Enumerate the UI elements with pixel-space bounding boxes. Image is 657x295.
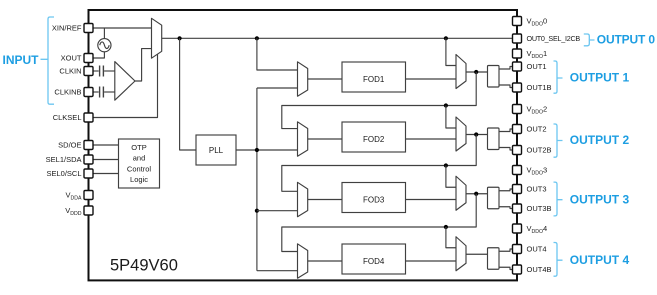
svg-text:5P49V60: 5P49V60 [110, 257, 178, 275]
capacitor C1 plates [100, 66, 104, 77]
OUTPUT 1 bracket [554, 61, 563, 93]
pin XIN/REF [84, 24, 93, 33]
wire reference drop to PLL input [180, 38, 196, 150]
junction node wrap line 3 at OUT3 mux drop [444, 163, 448, 167]
wire reference drop to FOD1 mux top input [257, 38, 298, 70]
pin OUT4 [513, 245, 522, 254]
pin VDDO4 [513, 224, 522, 233]
svg-text:OUTPUT 1: OUTPUT 1 [570, 71, 630, 85]
wire FOD2 output to OUT2 mux lower input [406, 138, 457, 140]
junction node wrap line 2 at OUT2 mux drop [444, 103, 448, 107]
OUT4 output mux [456, 237, 466, 271]
svg-text:OUTPUT 2: OUTPUT 2 [570, 133, 630, 147]
wire OUT2 mux output to driver [466, 134, 488, 136]
wire FOD4 mux output to FOD4 block [308, 260, 342, 262]
wire FOD1 mux output to FOD1 block [308, 78, 342, 80]
junction node PLL bus to FOD3 [255, 209, 259, 213]
svg-text:SEL0/SCL: SEL0/SCL [46, 169, 81, 178]
pin OUT0_SEL_I2CB [513, 34, 522, 43]
wire capacitor C2 to amp U2 [104, 91, 115, 93]
junction node on reference net at OUT1 mux drop [444, 36, 448, 40]
wire driver to OUT1 pin [499, 67, 513, 70]
svg-text:OUT1B: OUT1B [527, 83, 552, 92]
svg-text:OUT4: OUT4 [527, 245, 547, 254]
wire amp U2 output to input mux [135, 49, 152, 81]
svg-text:XOUT: XOUT [61, 54, 82, 63]
pin OUT1 [513, 62, 522, 71]
pin XOUT [84, 54, 93, 63]
svg-text:FOD3: FOD3 [363, 195, 385, 204]
wire cascade net from OUT3 mux output down to wrap line 4 [282, 194, 476, 252]
junction node OUT2 mux output [474, 132, 478, 136]
OUTPUT 3 bracket [554, 182, 563, 216]
svg-text:CLKINB: CLKINB [54, 88, 81, 97]
svg-text:OUTPUT 0: OUTPUT 0 [597, 32, 656, 46]
pin OUT1B [513, 83, 522, 92]
svg-text:CLKIN: CLKIN [59, 67, 81, 76]
wire PLL bus to FOD4 mux lower input [257, 270, 298, 272]
pin SEL0/SCL [84, 169, 93, 178]
svg-text:SEL1/SDA: SEL1/SDA [46, 155, 82, 164]
wire FOD2 mux output to FOD2 block [308, 138, 342, 140]
FOD2 input mux [298, 122, 308, 156]
pin SEL1/SDA [84, 155, 93, 164]
wire drop to OUT3 mux top input [446, 166, 456, 188]
svg-text:FOD1: FOD1 [363, 75, 385, 84]
capacitor C2 plates [100, 87, 104, 98]
wire drop to OUT4 mux top input [446, 227, 456, 248]
wire FOD1 output to OUT1 mux lower input [406, 78, 457, 80]
pin OUT2B [513, 146, 522, 155]
pin VDDO1 [513, 49, 522, 58]
wire reference net: input mux output to OUT0_SEL_I2CB pin [162, 37, 513, 39]
OUT1 output mux [456, 55, 466, 89]
junction node on reference net at FOD1 drop [255, 36, 259, 40]
svg-text:INPUT: INPUT [3, 53, 40, 67]
wire PLL bus to FOD3 mux lower input [257, 210, 298, 212]
wire PLL output to FOD2 mux lower input [236, 149, 298, 151]
svg-text:FOD2: FOD2 [363, 135, 385, 144]
svg-text:OUTPUT 4: OUTPUT 4 [570, 253, 630, 267]
wire SEL0/SCL pin to OTP block [93, 173, 119, 175]
wire FOD4 output to OUT4 mux lower input [406, 260, 457, 262]
wire CLKINB pin to capacitor C2 [93, 91, 99, 93]
svg-text:OUT1: OUT1 [527, 62, 547, 71]
wire driver to OUT2B pin [499, 148, 513, 151]
pin VDDA [84, 191, 93, 200]
OUT1 output driver [488, 66, 500, 88]
wire OUT4 mux output to driver [466, 253, 488, 255]
pin OUT2 [513, 125, 522, 134]
wire SD/OE pin to OTP block [93, 144, 119, 146]
wire driver to OUT1B pin [499, 85, 513, 88]
wire driver to OUT4B pin [499, 267, 513, 269]
OUT4 output driver [488, 248, 500, 270]
wire crystal top stub [103, 28, 105, 39]
wire OUT1 mux output to driver [466, 71, 488, 73]
junction node OUT3 mux output [474, 192, 478, 196]
pin VDDO2 [513, 105, 522, 114]
svg-text:OUT2: OUT2 [527, 125, 547, 134]
pin SD/OE [84, 141, 93, 150]
svg-text:SD/OE: SD/OE [58, 141, 81, 150]
FOD1 input mux [298, 62, 308, 96]
svg-text:OUT0_SEL_I2CB: OUT0_SEL_I2CB [527, 34, 581, 43]
FOD2 block [342, 122, 406, 152]
OUTPUT 0 bracket [584, 34, 595, 46]
wire PLL output vertical distribution bus [256, 88, 258, 271]
svg-text:XIN/REF: XIN/REF [52, 24, 82, 33]
wire OUT3 mux output to driver [466, 193, 488, 195]
input amplifier U2 triangle [115, 62, 135, 101]
pin OUT3B [513, 204, 522, 213]
svg-text:CLKSEL: CLKSEL [53, 113, 82, 122]
OUTPUT 4 bracket [554, 243, 563, 277]
wire drop to OUT2 mux top input [446, 106, 456, 129]
wire drop to OUT1 mux top input [446, 38, 456, 65]
wire capacitor C1 to amp U2 [104, 70, 115, 72]
wire driver to OUT4 pin [499, 249, 513, 251]
PLL block U4 [196, 135, 236, 165]
svg-text:FOD4: FOD4 [363, 257, 385, 266]
svg-text:PLL: PLL [209, 146, 224, 155]
FOD3 input mux [298, 182, 308, 216]
OUTPUT 2 bracket [554, 124, 563, 157]
wire CLKSEL pin to input mux select [93, 54, 158, 117]
pin VDDO3 [513, 166, 522, 175]
OUT2 output mux [456, 117, 466, 151]
wire driver to OUT2 pin [499, 129, 513, 132]
svg-text:OUTPUT 3: OUTPUT 3 [570, 193, 630, 207]
junction node on reference net at PLL drop [178, 36, 182, 40]
INPUT group bracket [41, 17, 55, 104]
junction node wrap line 4 at OUT4 mux drop [444, 225, 448, 229]
wire FOD3 mux output to FOD3 block [308, 199, 342, 201]
wire cascade net from OUT1 mux output down to wrap line 2 [282, 72, 476, 129]
wire cascade net from OUT2 mux output down to wrap line 3 [282, 135, 476, 192]
IC U1 5P49V60 body outline [89, 10, 518, 280]
OUT3 output driver [488, 187, 500, 209]
pin VDDD [84, 206, 93, 215]
wire PLL bus to FOD1 mux lower input [257, 87, 298, 89]
wire driver to OUT3B pin [499, 207, 513, 209]
pin CLKIN [84, 67, 93, 76]
svg-text:OUT2B: OUT2B [527, 146, 552, 155]
pin CLKSEL [84, 113, 93, 122]
wire SEL1/SDA pin to OTP block [93, 159, 119, 161]
crystal oscillator Y1 circle [98, 39, 111, 52]
crystal oscillator Y1 sine symbol [100, 42, 110, 49]
pin OUT3 [513, 185, 522, 194]
pin OUT4B [513, 265, 522, 274]
OUT2 output driver [488, 128, 500, 150]
wire XIN/REF pin to input mux [93, 27, 152, 29]
input clock mux U3 [152, 18, 162, 58]
pin VDDO0 [513, 17, 522, 26]
wire CLKIN pin to capacitor C1 [93, 70, 99, 72]
junction node OUT1 mux output [474, 70, 478, 74]
FOD4 input mux [298, 244, 308, 278]
FOD3 block [342, 183, 406, 213]
FOD1 block [342, 62, 406, 92]
pin CLKINB [84, 88, 93, 97]
OTP and Control Logic block [119, 139, 160, 188]
wire crystal bottom stub to XOUT [93, 52, 104, 58]
wire FOD3 output to OUT3 mux lower input [406, 199, 457, 201]
OUT3 output mux [456, 176, 466, 210]
wire driver to OUT3 pin [499, 189, 513, 191]
svg-text:OUT4B: OUT4B [527, 265, 552, 274]
FOD4 block [342, 244, 406, 274]
svg-text:OUT3B: OUT3B [527, 204, 552, 213]
junction node PLL output cross [255, 148, 259, 152]
svg-text:OUT3: OUT3 [527, 185, 547, 194]
